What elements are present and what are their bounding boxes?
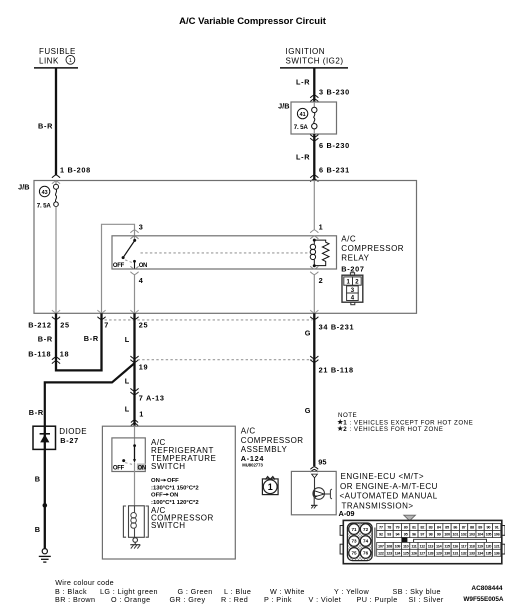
relay mechanical link dashed [141, 252, 311, 254]
svg-text:B-27: B-27 [60, 436, 79, 445]
svg-text:19: 19 [139, 363, 149, 372]
wire L to compressor assembly [133, 313, 135, 425]
svg-text:34 B-231: 34 B-231 [319, 323, 355, 332]
ignition switch (IG2) label [286, 47, 344, 65]
ECU internal ground [311, 497, 318, 508]
wire label B-R [38, 122, 53, 131]
svg-text:6 B-230: 6 B-230 [319, 141, 350, 150]
diode B-27 box [33, 426, 56, 449]
assembly connector chevrons [131, 420, 138, 426]
relay pin 1 chevrons [310, 230, 318, 239]
compressor switch (clutch coil) [123, 506, 148, 538]
temp switch label OFF [113, 466, 125, 472]
temp switch pivot [122, 459, 125, 462]
connector 6 B-230 chevrons [310, 135, 318, 142]
wire label L 3 [125, 405, 130, 414]
svg-text:2 : VEHICLES FOR HOT ZONE: 2 : VEHICLES FOR HOT ZONE [343, 426, 443, 433]
transistor Q1 (output driver) [313, 488, 332, 500]
svg-text:B: B [35, 475, 41, 484]
connector label 6 B-230 [319, 141, 350, 150]
svg-text:RELAY: RELAY [341, 253, 369, 262]
svg-text:21 B-118: 21 B-118 [319, 366, 354, 375]
wire label G upper [305, 329, 311, 338]
svg-text:25: 25 [139, 321, 149, 330]
svg-text:COMPRESSOR: COMPRESSOR [241, 436, 304, 445]
svg-text:L: L [125, 377, 130, 386]
relay switch lever [123, 241, 134, 258]
svg-text:SWITCH: SWITCH [151, 462, 186, 471]
svg-text:W9F55E005A: W9F55E005A [463, 596, 504, 603]
svg-text:OFF: OFF [113, 466, 125, 472]
fuse number 41 circle [297, 108, 307, 118]
temp switch lever closed [133, 446, 136, 463]
svg-text:ENGINE-ECU <M/T>: ENGINE-ECU <M/T> [341, 472, 425, 481]
connector label 7 A-13 [139, 394, 165, 403]
temp switch link dashes [125, 463, 132, 465]
J/B label (top) [278, 101, 289, 110]
svg-text:B-118: B-118 [28, 350, 51, 359]
svg-text:AC808444: AC808444 [471, 585, 502, 592]
relay B-207 pin layout diagram [342, 273, 363, 305]
svg-text:O : Orange: O : Orange [111, 595, 151, 604]
connector B-230 chevrons [310, 95, 318, 102]
fusible link 1 label [39, 47, 76, 65]
svg-text:72: 72 [363, 527, 369, 532]
connector label 21 B-118 [319, 366, 354, 375]
svg-text:OR ENGINE-A-M/T-ECU: OR ENGINE-A-M/T-ECU [340, 482, 438, 491]
svg-text:7: 7 [104, 321, 109, 330]
refrigerant temperature switch box [112, 438, 145, 472]
connector 7 A-13 chevrons [130, 388, 138, 395]
temp switch ON highlight [137, 463, 146, 470]
ground symbol [39, 549, 51, 562]
svg-text:107: 107 [378, 543, 384, 548]
svg-text:MU802773: MU802773 [242, 463, 263, 468]
J/B exit chevrons wire B-212 [52, 310, 60, 320]
svg-text:120: 120 [486, 543, 492, 548]
wire B-R from fusible link [55, 68, 57, 175]
svg-text:95: 95 [318, 458, 326, 467]
wire label L-R [296, 78, 310, 87]
svg-text:B-212: B-212 [28, 320, 51, 329]
document codes [463, 585, 504, 603]
relay coil [310, 239, 316, 268]
svg-text:<AUTOMATED MANUAL: <AUTOMATED MANUAL [340, 492, 438, 501]
fuse 41 rating 7.5A [294, 124, 309, 131]
connector label 1 B-208 [60, 166, 91, 175]
svg-text:77: 77 [379, 525, 383, 530]
diode symbol [40, 434, 50, 443]
relay label OFF [113, 263, 125, 269]
svg-text:L-R: L-R [296, 78, 310, 87]
wire label L 2 [125, 377, 130, 386]
diode name label [59, 427, 87, 445]
svg-text:1 B-208: 1 B-208 [60, 166, 91, 175]
svg-text:FUSIBLE: FUSIBLE [39, 47, 76, 56]
svg-text:G: G [305, 329, 311, 338]
svg-text:110: 110 [403, 543, 409, 548]
svg-text:41: 41 [300, 112, 306, 118]
connector 19 chevrons [130, 356, 138, 363]
svg-text:4: 4 [139, 276, 144, 285]
fuse number 43 circle [39, 186, 49, 196]
svg-text:P : Pink: P : Pink [264, 595, 292, 604]
wire L-R upper [313, 68, 315, 102]
svg-text:127: 127 [419, 550, 425, 555]
wire colour code legend [55, 578, 444, 604]
relay pin label 1 [319, 222, 324, 231]
temp switch label ON [138, 466, 146, 472]
svg-text:OFF: OFF [167, 478, 179, 484]
svg-text:130: 130 [444, 550, 450, 555]
fuse 43 rating 7.5A [37, 203, 52, 210]
ECU connector A-09 pin diagram [340, 515, 505, 564]
wire label G lower [305, 406, 311, 415]
svg-text:V : Violet: V : Violet [309, 595, 342, 604]
svg-text:1: 1 [139, 410, 144, 419]
compressor switch ground [130, 537, 140, 548]
svg-text:25: 25 [60, 320, 70, 329]
wire label B-R right [84, 334, 99, 343]
svg-text:SWITCH: SWITCH [151, 521, 186, 530]
svg-text:PU : Purple: PU : Purple [357, 595, 398, 604]
relay ON contact pin [133, 260, 136, 269]
temp switch name label [151, 438, 216, 471]
ECU pin label 95 [318, 458, 326, 467]
svg-text:DIODE: DIODE [59, 427, 87, 436]
wire U-loop B-212 to pin 7 [56, 313, 102, 370]
wire inside assembly [134, 426, 136, 445]
connector label 19 [139, 363, 149, 372]
relay coil resistor [314, 240, 329, 266]
junction block J/B (fuse 41) box [291, 102, 337, 134]
svg-text:J/B: J/B [278, 101, 289, 110]
connector label 7 [104, 321, 109, 330]
svg-text:LINK: LINK [39, 57, 59, 66]
wire label L-R 2 [296, 152, 310, 161]
svg-text:1: 1 [69, 58, 72, 64]
svg-text:3 B-230: 3 B-230 [319, 87, 350, 96]
svg-text:L: L [125, 335, 130, 344]
svg-text:BR : Brown: BR : Brown [55, 595, 95, 604]
relay pin label 2 [319, 276, 324, 285]
svg-text:B-R: B-R [29, 408, 44, 417]
svg-text:7 A-13: 7 A-13 [139, 394, 165, 403]
title [179, 16, 327, 27]
J/B exit chevrons wire 34 [310, 310, 318, 320]
svg-text:J/B: J/B [18, 183, 29, 192]
relay pin 4 chevrons [130, 266, 138, 274]
connector labels B-118 18 [28, 350, 69, 359]
svg-text:117: 117 [461, 543, 467, 548]
svg-text:87: 87 [462, 525, 466, 530]
svg-text:100: 100 [444, 532, 450, 537]
J/B label (main) [18, 183, 29, 192]
svg-text:76: 76 [363, 551, 369, 556]
wire label B 2 [35, 525, 41, 534]
wire relay pin 4 down [134, 275, 136, 314]
relay switch contact [133, 239, 136, 242]
svg-text:B-207: B-207 [341, 264, 364, 273]
relay switch pivot [122, 256, 125, 259]
wire inside J/B to relay pin 1 [313, 181, 315, 230]
svg-text:B: B [35, 525, 41, 534]
svg-text::130°C*1 150°C*2: :130°C*1 150°C*2 [151, 486, 199, 492]
wire relay pin 2 down [313, 275, 315, 314]
svg-text:73: 73 [351, 539, 357, 544]
same-connector dashed line upper [105, 319, 313, 321]
svg-text:L-R: L-R [296, 152, 310, 161]
wire label B-R diode [29, 408, 44, 417]
svg-text:A-09: A-09 [339, 509, 355, 518]
svg-text:A/C: A/C [341, 234, 356, 243]
temp switch contact dot [133, 444, 136, 447]
svg-text:75: 75 [351, 551, 357, 556]
svg-text:1: 1 [268, 482, 273, 492]
svg-text:NOTE: NOTE [338, 412, 357, 419]
engine ECU box [291, 471, 336, 514]
svg-text:B-R: B-R [84, 334, 99, 343]
svg-text:OFF: OFF [151, 493, 163, 499]
svg-text:B-R: B-R [38, 122, 53, 131]
svg-text:A/C: A/C [241, 427, 256, 436]
svg-text:A/C Variable Compressor Circui: A/C Variable Compressor Circuit [179, 16, 327, 27]
ECU wire to transistor [314, 478, 316, 490]
note text [337, 412, 473, 433]
svg-text:7. 5A: 7. 5A [294, 124, 309, 131]
svg-text:L: L [125, 405, 130, 414]
junction dot [43, 503, 48, 508]
svg-text:ON: ON [170, 493, 179, 499]
connector B-208 chevrons [52, 175, 60, 184]
svg-text:7. 5A: 7. 5A [37, 203, 52, 210]
svg-text:ON: ON [138, 466, 146, 472]
svg-text:G: G [305, 406, 311, 415]
ignition switch bus bar [280, 67, 348, 69]
svg-text:Wire colour code: Wire colour code [55, 578, 114, 587]
J/B exit chevrons wire 25 [130, 310, 138, 320]
relay name label [341, 234, 404, 273]
svg-text:74: 74 [363, 539, 369, 544]
svg-text:80: 80 [404, 525, 408, 530]
ECU name label [339, 472, 438, 518]
relay label ON [139, 263, 147, 269]
svg-text:71: 71 [351, 527, 357, 532]
fuse 41 element [312, 102, 317, 134]
A/C compressor relay box [112, 236, 337, 269]
compressor switch name label [151, 506, 214, 530]
svg-text:IGNITION: IGNITION [286, 47, 326, 56]
svg-text:ON: ON [139, 263, 147, 269]
relay pin 3 chevrons [130, 230, 138, 239]
relay switch link dashes [125, 260, 133, 263]
connector label 25 [139, 321, 149, 330]
svg-text:1: 1 [319, 222, 324, 231]
J/B entry chevrons wire 7 [97, 310, 105, 320]
wire label L 1 [125, 335, 130, 344]
wire inside J/B to relay pin 3 [102, 224, 135, 313]
svg-text:ASSEMBLY: ASSEMBLY [241, 445, 288, 454]
wire label B 1 [35, 475, 41, 484]
svg-text:R : Red: R : Red [221, 595, 248, 604]
svg-text:GR : Grey: GR : Grey [170, 595, 206, 604]
connector label 34 B-231 [319, 323, 355, 332]
assembly pin label 1 [139, 410, 144, 419]
svg-text:90: 90 [487, 525, 491, 530]
svg-text:OFF: OFF [113, 263, 125, 269]
fusible link reference icon [262, 477, 278, 495]
wire through diode [44, 426, 46, 548]
relay pin label 4 [139, 276, 144, 285]
connector B-118-18 chevrons [52, 357, 60, 364]
svg-text:18: 18 [60, 350, 70, 359]
wire inside J/B from fuse 43 [55, 207, 57, 314]
connector 21 B-118 chevrons [310, 356, 318, 363]
connector label 6 B-231 [319, 166, 350, 175]
wire L-R lower [313, 134, 315, 181]
temp switch thresholds [151, 478, 199, 506]
wire G to ECU [313, 313, 315, 466]
svg-text:ON: ON [151, 478, 160, 484]
A/C compressor assembly box [102, 426, 235, 559]
svg-text:2: 2 [319, 276, 324, 285]
connector label 3 B-230 [319, 87, 350, 96]
wire label B-R left [38, 335, 53, 344]
junction block J/B (main) box [34, 181, 417, 314]
svg-text:B-R: B-R [38, 335, 53, 344]
relay pin label 3 [139, 222, 144, 231]
svg-text:3: 3 [139, 222, 144, 231]
wire to compressor switch [134, 463, 136, 506]
fuse 43 element [54, 181, 59, 207]
connector labels B-212 25 [28, 320, 70, 329]
assembly name label [241, 427, 304, 468]
svg-text:43: 43 [42, 190, 48, 196]
same-connector dashed line lower [138, 359, 313, 361]
svg-text:COMPRESSOR: COMPRESSOR [341, 244, 404, 253]
svg-text:97: 97 [420, 532, 424, 537]
svg-text:A-124: A-124 [241, 454, 265, 463]
svg-text:6 B-231: 6 B-231 [319, 166, 350, 175]
relay pin 2 chevrons [310, 266, 318, 274]
svg-text:SI : Silver: SI : Silver [409, 595, 444, 604]
connector B-231 chevrons [310, 175, 318, 182]
ECU entry chevrons [310, 467, 318, 472]
wire branch to diode [45, 363, 135, 426]
fusible link bus bar [34, 67, 78, 69]
svg-text:SWITCH (IG2): SWITCH (IG2) [286, 57, 344, 66]
ECU internal supply triangle [312, 474, 318, 478]
